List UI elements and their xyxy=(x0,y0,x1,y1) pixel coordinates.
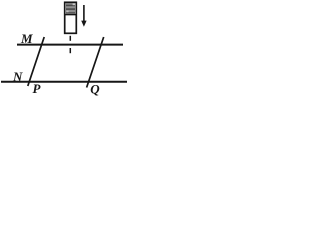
svg-text:P: P xyxy=(33,81,42,96)
falling block (shaded upper half) xyxy=(65,2,77,33)
dashed drop line xyxy=(69,36,71,53)
background xyxy=(0,0,130,107)
rail M xyxy=(17,44,123,46)
left slant side (through P) xyxy=(28,37,44,86)
right slant side (through Q) xyxy=(87,37,104,88)
svg-text:Q: Q xyxy=(90,82,100,97)
downward velocity arrow xyxy=(81,5,86,27)
block divider line xyxy=(64,14,77,16)
rail N xyxy=(1,81,127,83)
svg-text:N: N xyxy=(12,69,23,84)
svg-text:M: M xyxy=(20,31,33,46)
